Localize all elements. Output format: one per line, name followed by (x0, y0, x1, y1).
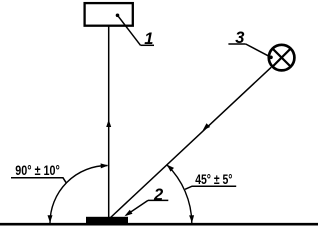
svg-text:1: 1 (144, 30, 153, 48)
svg-text:90° ± 10°: 90° ± 10° (15, 162, 60, 178)
svg-text:2: 2 (153, 186, 163, 204)
svg-text:45° ± 5°: 45° ± 5° (195, 171, 232, 187)
svg-text:3: 3 (235, 29, 244, 47)
